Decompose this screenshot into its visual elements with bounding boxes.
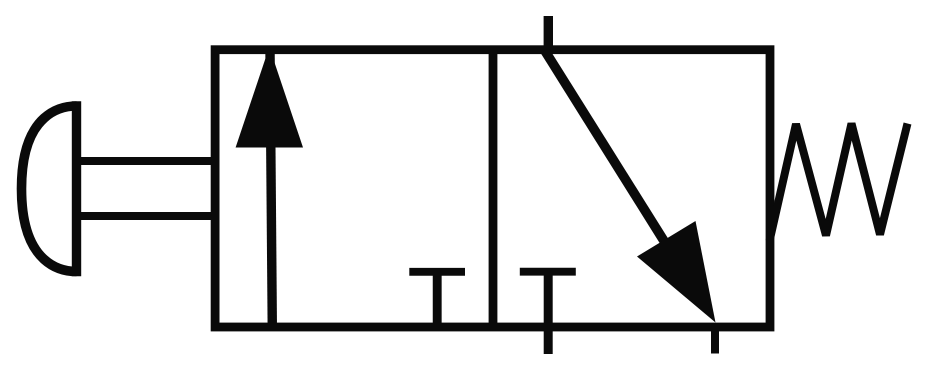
bottom port line (port 3)	[711, 327, 719, 354]
push button actuator cap (mushroom head arc)	[22, 106, 77, 272]
flow path arrow (position 1) shaft	[270, 50, 272, 328]
push button flat back plate	[72, 101, 81, 276]
position divider line	[489, 50, 498, 327]
flow path arrow (position 2) head	[637, 221, 716, 323]
blocked port symbol T (position 2) stem and bottom port line (port 1)	[544, 272, 553, 354]
blocked port symbol T (position 1) bar	[409, 268, 465, 276]
flow path arrow (position 2) diagonal shaft	[545, 51, 701, 301]
plunger rod upper line	[79, 157, 213, 165]
top port line (port 2)	[544, 16, 553, 54]
plunger rod lower line	[79, 212, 213, 220]
blocked port symbol T (position 1) stem	[433, 272, 442, 327]
flow path arrow (position 1) head	[236, 47, 303, 148]
blocked port symbol T (position 2) bar	[520, 268, 576, 276]
valve body outline (two position envelope)	[215, 50, 770, 327]
return spring zigzag	[770, 124, 908, 242]
